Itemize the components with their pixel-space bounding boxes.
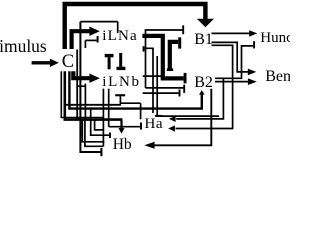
- B2 to Ha arrow (via x223.4): [176, 78, 223, 119]
- wire iLNb lower inhibition line: [143, 92, 179, 94]
- tick on B1 (thin): [182, 25, 184, 34]
- cap tick over Ha: [155, 115, 162, 117]
- Ha line to the right (crossing B2 drop): [156, 115, 219, 117]
- tick below iLNa: [143, 46, 145, 51]
- wire iLNa to B2 inhibition (thick): [142, 36, 183, 79]
- stem elbow to right: [120, 102, 141, 104]
- node Ha: [145, 117, 164, 132]
- T-bar tick on B1 (thick): [178, 37, 181, 48]
- vertical x77.8 beside C down to Hb bar: [76, 50, 78, 120]
- arrowhead into C: [50, 59, 59, 67]
- inhibition line onto Ha from left: [109, 126, 141, 128]
- C bottom thick vertical to Hb bar: [65, 71, 123, 119]
- mutual inhibition symbol inverted-T (cap bottom): [119, 53, 122, 67]
- arrowhead left into Hb: [144, 142, 154, 149]
- wire stimulus to C (thick arrow): [32, 61, 51, 64]
- wire thin inhibition onto B2 from below-left: [146, 87, 184, 89]
- tick lowest left of Hb: [100, 148, 102, 156]
- arrowhead down into B1: [197, 19, 214, 28]
- bar descent to Hb down-arrow: [120, 120, 122, 129]
- tick on B2 lower (thin): [183, 85, 185, 93]
- mutual inhibition symbol T (cap top): [105, 54, 114, 57]
- wire iLNb side to B1 inhibition (thick): [170, 42, 178, 70]
- wire C to iLNa (thick arrow): [72, 31, 90, 49]
- tick left of iLNa: [97, 36, 99, 43]
- B1 to Ha arrow (via x232.6): [176, 45, 233, 128]
- vertical x85.4 lower segment to bar: [84, 84, 86, 120]
- top thin rectangle wire: [80, 21, 117, 23]
- B2 to Hunch inhibition: [215, 46, 253, 78]
- node Stimulus label (clipped at left): [0, 38, 47, 56]
- tick left of Hunch: [253, 41, 255, 48]
- B1 to Bend arrow (upper): [212, 42, 249, 72]
- arrowhead up into B2: [199, 90, 205, 95]
- vertical beside C x80.3 down to lowest Hb tick: [80, 22, 100, 152]
- wire iLNb output thin into bus: [143, 75, 162, 77]
- node Hb: [113, 137, 132, 153]
- B2 to Bend arrow (straight): [215, 81, 248, 83]
- node iLNa: [102, 29, 138, 44]
- vertical drop toward Ha tick: [140, 103, 142, 119]
- tick of iLNb lower line: [179, 90, 181, 97]
- arrowhead down into Hb: [118, 128, 124, 134]
- T-bar tick on B2 (thick): [184, 73, 187, 84]
- vertical V2 down to Ha cap: [156, 56, 158, 115]
- nested elbow x94.6 from bar: [95, 120, 104, 130]
- long bus to B2 up-arrow: [69, 71, 201, 108]
- nested elbow x82.3 from bar: [82, 120, 104, 142]
- vertical ending above iLNa: [117, 22, 119, 33]
- wire thin inhibition onto B1: [145, 29, 183, 31]
- tick left of Hb upper: [109, 133, 111, 139]
- node Bend (clipped at right): [265, 69, 299, 85]
- wire C to iLNb (thick arrow): [73, 71, 90, 78]
- arrowhead into iLNa: [89, 27, 99, 36]
- node Hunch (clipped at right): [260, 31, 300, 46]
- elbow x90.7 from bus to Hb tick: [91, 109, 110, 136]
- thin wire beside bar: [61, 71, 103, 117]
- vertical below iLNb to y146: [102, 89, 104, 147]
- node B1: [194, 32, 213, 48]
- vertical feed x145.5: [145, 30, 147, 88]
- short vertical below iLNa-inhibition elbow: [84, 40, 86, 48]
- inhibition onto iLNb from below (T up): [115, 94, 125, 96]
- node B2: [194, 75, 213, 91]
- tick on Ha left: [140, 123, 142, 130]
- C bottom vertical to Ha line: [65, 104, 121, 106]
- nested elbow x84.9 from bar: [85, 120, 104, 147]
- node iLNb: [102, 75, 140, 90]
- B1 to Hunch arrow: [212, 32, 250, 34]
- thick stub at bottom of B1-inhibition vertical: [167, 68, 173, 71]
- wire Ha feedback up to iLNa inhibition: [144, 48, 153, 113]
- branch inhibition toward iLNb left: [77, 85, 85, 87]
- vertical below iLNb x108.7: [108, 89, 110, 127]
- arrowhead into iLNb: [89, 74, 100, 83]
- wire big loop C to B1 (thick): [65, 4, 206, 49]
- inhibition onto iLNa elbow line: [85, 39, 96, 41]
- B2 down to Hb arrow: [155, 89, 212, 146]
- node C: [62, 53, 74, 72]
